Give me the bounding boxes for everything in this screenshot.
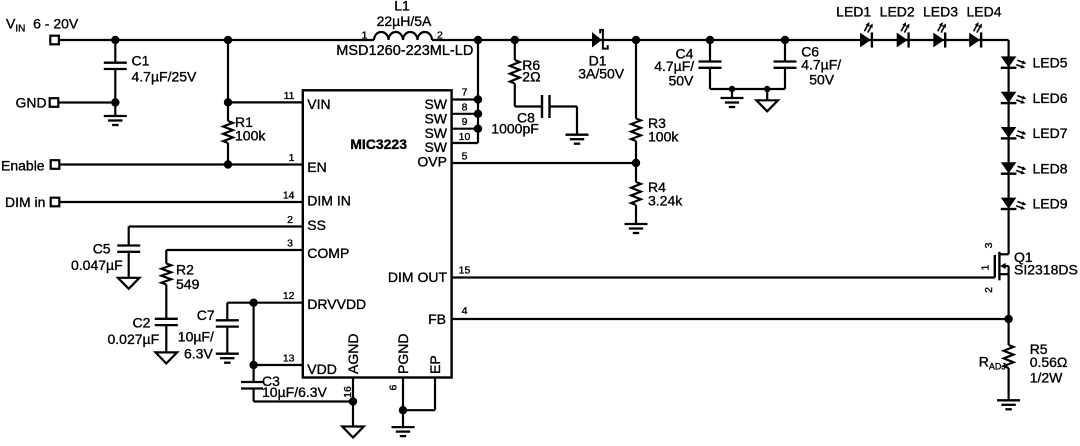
svg-text:PGND: PGND (395, 334, 411, 374)
svg-text:8: 8 (462, 101, 468, 113)
wire FB to sense node (452, 318, 1009, 320)
junction C1 bottom (111, 98, 119, 106)
resistor R4 (635, 163, 637, 182)
svg-text:4.7µF/: 4.7µF/ (654, 58, 694, 74)
wire DRVVDD pin to C7 (227, 302, 302, 304)
svg-text:6.3V: 6.3V (184, 346, 213, 362)
junction R6 top rail (511, 36, 519, 44)
resistor R6 (514, 40, 516, 60)
svg-text:SS: SS (307, 217, 326, 233)
LED D5 LED5 (1001, 56, 1017, 67)
svg-text:4: 4 (462, 305, 468, 317)
wire DIM OUT to Q1 gate (452, 276, 995, 278)
op-amp U1 MIC3223 body (303, 90, 452, 377)
svg-text:DIM OUT: DIM OUT (388, 269, 448, 285)
wire VIN rail from L1 to corner (432, 39, 1009, 41)
node VIN input terminal (50, 36, 59, 45)
capacitor C1 (114, 40, 116, 63)
svg-text:AGND: AGND (345, 334, 361, 374)
svg-text:C1: C1 (132, 53, 150, 69)
capacitor C2 (155, 318, 178, 320)
svg-text:3: 3 (983, 242, 995, 248)
diode D1 (592, 32, 602, 48)
svg-text:13: 13 (283, 353, 295, 365)
svg-text:7: 7 (462, 87, 468, 99)
wire VDD pin to node (254, 364, 303, 366)
LED D7 LED7 (1001, 127, 1017, 138)
svg-text:4.7µF/25V: 4.7µF/25V (132, 69, 198, 85)
svg-text:0.047µF: 0.047µF (71, 257, 123, 273)
wire OVP to R3/R4 node (452, 162, 636, 164)
svg-text:50V: 50V (668, 73, 694, 89)
svg-text:LED5: LED5 (1033, 55, 1068, 71)
capacitor C4 (709, 40, 711, 62)
svg-text:3.24k: 3.24k (648, 192, 683, 208)
svg-text:FB: FB (428, 311, 446, 327)
junction AGND node (349, 397, 357, 405)
svg-text:MIC3223: MIC3223 (350, 136, 407, 152)
wire C3 to AGND node (254, 400, 353, 402)
ground triangle below C5 (118, 278, 140, 289)
junction DRVVDD node (249, 299, 257, 307)
svg-text:0.027µF: 0.027µF (108, 331, 160, 347)
ground triangle below AGND (342, 427, 364, 438)
resistor R3 (635, 40, 637, 119)
svg-text:LED3: LED3 (923, 3, 958, 19)
svg-text:LED6: LED6 (1033, 90, 1068, 106)
svg-text:9: 9 (462, 116, 468, 128)
svg-text:SI2318DS: SI2318DS (1014, 262, 1078, 278)
junction R1 Enable node (224, 160, 232, 168)
svg-text:DIM IN: DIM IN (307, 192, 351, 208)
svg-text:Enable: Enable (1, 157, 45, 173)
LED D4 LED4 (969, 33, 980, 48)
capacitor C8 (541, 95, 543, 118)
wire SW pin 9 (452, 128, 478, 130)
wire EP pin stub (434, 378, 436, 411)
wire Q1 source down (1007, 274, 1009, 319)
wire AGND to ground (352, 402, 354, 427)
svg-text:5: 5 (462, 151, 468, 163)
svg-text:10: 10 (459, 131, 471, 143)
junction C6 top rail (781, 36, 789, 44)
svg-text:4.7µF/: 4.7µF/ (801, 57, 841, 73)
svg-text:LED7: LED7 (1033, 125, 1068, 141)
wire SS pin to C5 (129, 225, 303, 227)
junction FB sense node (1004, 315, 1012, 323)
svg-text:100k: 100k (235, 127, 266, 143)
ground below C8 (566, 134, 589, 136)
junction SW pin9 (474, 125, 482, 133)
svg-text:2: 2 (983, 287, 995, 293)
junction R1 top rail (224, 36, 232, 44)
svg-text:50V: 50V (809, 71, 835, 87)
inductor L1 (374, 32, 432, 40)
capacitor C7 (216, 319, 239, 321)
wire C4 C6 bottom (710, 88, 785, 90)
wire GND terminal to C1 (58, 101, 115, 103)
ground below C1 (114, 103, 116, 117)
svg-text:COMP: COMP (307, 245, 349, 261)
LED D9 LED9 (1001, 198, 1017, 209)
wire C8 to ground (550, 105, 578, 107)
svg-text:LED9: LED9 (1033, 196, 1068, 212)
wire PGND to ground (402, 410, 404, 427)
junction D1 cathode rail (632, 36, 640, 44)
junction R1 pin11 node (224, 98, 232, 106)
svg-text:15: 15 (459, 265, 471, 277)
LED D1 LED1 (860, 33, 871, 48)
resistor R5 RADJ (1007, 319, 1009, 345)
svg-text:1000pF: 1000pF (491, 121, 538, 137)
junction PGND node (399, 406, 407, 414)
svg-text:LED1: LED1 (836, 3, 871, 19)
svg-text:MSD1260-223ML-LD: MSD1260-223ML-LD (336, 43, 473, 59)
ground triangle below C4C6 (766, 89, 768, 100)
svg-text:C5: C5 (93, 240, 111, 256)
svg-text:VIN: VIN (307, 96, 330, 112)
svg-text:C2: C2 (133, 315, 151, 331)
wire Enable to EN pin (59, 163, 302, 165)
svg-text:1/2W: 1/2W (1030, 370, 1063, 386)
resistor R2 (161, 264, 171, 285)
ground below R5 (997, 399, 1020, 401)
wire AGND pin stub (352, 378, 354, 402)
junction C1 top (111, 36, 119, 44)
svg-text:2: 2 (287, 214, 293, 226)
svg-text:12: 12 (283, 290, 295, 302)
svg-text:549: 549 (176, 276, 200, 292)
svg-text:LED2: LED2 (880, 3, 915, 19)
transistor Q1 SI2318DS (994, 255, 996, 278)
ground below R4 (625, 223, 648, 225)
junction SW pin7 (474, 95, 482, 103)
node Enable input terminal (51, 160, 60, 169)
svg-text:LED4: LED4 (966, 3, 1001, 19)
junction C4C6 ground 1 (729, 86, 735, 92)
junction C4C6 ground 2 (764, 86, 770, 92)
LED D2 LED2 (897, 33, 908, 48)
svg-text:VDD: VDD (307, 361, 337, 377)
wire PGND pin stub (402, 378, 404, 411)
svg-text:L1: L1 (394, 0, 410, 14)
svg-text:2Ω: 2Ω (522, 69, 540, 85)
capacitor C5 (117, 244, 140, 246)
svg-text:LED8: LED8 (1033, 160, 1068, 176)
capacitor C3 (253, 365, 255, 382)
svg-text:11: 11 (284, 90, 295, 102)
svg-text:DIM in: DIM in (5, 194, 45, 210)
svg-text:0.56Ω: 0.56Ω (1030, 354, 1068, 370)
wire pin11 node to VIN pin (228, 101, 303, 103)
svg-text:22µH/5A: 22µH/5A (377, 13, 432, 29)
svg-text:1: 1 (289, 152, 295, 164)
wire SW pin 10 (452, 142, 478, 144)
junction SW rail (474, 36, 482, 44)
wire SW pin 8 (452, 113, 478, 115)
junction SW pin8 (474, 110, 482, 118)
wire EP to PGND (403, 409, 435, 411)
wire COMP pin to R2 (166, 249, 302, 251)
ground earth below C4C6 (731, 89, 733, 98)
svg-text:14: 14 (283, 190, 295, 202)
wire VIN rail to pin11 node (227, 40, 229, 102)
ground below C7 (216, 353, 239, 355)
svg-text:1: 1 (980, 265, 992, 271)
svg-text:GND: GND (16, 94, 47, 110)
svg-text:10µF/: 10µF/ (178, 328, 214, 344)
svg-text:OVP: OVP (417, 154, 447, 170)
junction C4 top rail (706, 36, 714, 44)
svg-text:EN: EN (307, 159, 326, 175)
svg-text:DRVVDD: DRVVDD (307, 296, 366, 312)
svg-text:100k: 100k (648, 128, 679, 144)
resistor R1 (227, 102, 229, 121)
svg-text:3A/50V: 3A/50V (578, 66, 625, 82)
node GND input terminal (50, 98, 59, 107)
wire SW pin 7 (452, 98, 478, 100)
junction OVP node (632, 159, 640, 167)
wire SW bus vertical (477, 40, 479, 143)
capacitor C6 (784, 40, 786, 62)
wire R6 to C8 (515, 105, 542, 107)
ground below PGND (392, 426, 415, 428)
wire DIM in to DIM IN pin (59, 201, 302, 203)
LED D8 LED8 (1001, 162, 1017, 173)
wire DRVVDD node to VDD node (253, 303, 255, 365)
svg-text:2: 2 (437, 30, 443, 42)
node DIM in input terminal (51, 198, 60, 207)
svg-text:C7: C7 (197, 307, 215, 323)
svg-text:10µF/6.3V: 10µF/6.3V (262, 384, 328, 400)
LED D3 LED3 (933, 33, 944, 48)
svg-text:1: 1 (362, 30, 368, 42)
ground triangle below C2 (156, 352, 178, 363)
junction VDD node (249, 361, 257, 369)
wire LED string vertical drop (1007, 40, 1009, 254)
svg-text:3: 3 (287, 238, 293, 250)
svg-text:6: 6 (387, 385, 399, 391)
svg-text:EP: EP (427, 355, 443, 374)
LED D6 LED6 (1001, 92, 1017, 103)
wire VIN rail left segment (59, 39, 374, 41)
